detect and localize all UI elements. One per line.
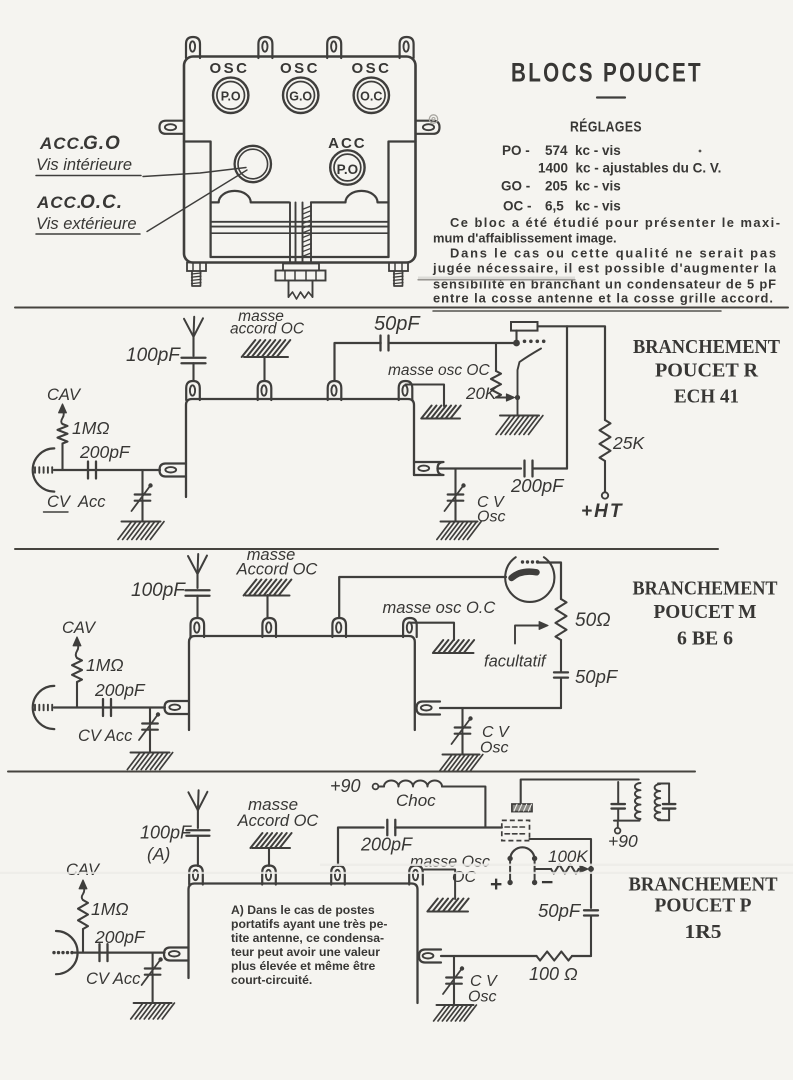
svg-text:C V: C V — [470, 973, 498, 990]
svg-text:mum d'affaiblissement image.: mum d'affaiblissement image. — [433, 231, 617, 246]
facultatif arrow — [515, 626, 543, 644]
wire triode top to 50 ohm — [538, 563, 561, 600]
CAV arrow P — [79, 880, 87, 889]
triode coil crescent — [512, 572, 537, 578]
leader line to ACC O.C trimmer — [147, 170, 247, 232]
trimmer ACC P.O — [330, 150, 364, 184]
ground CV Osc — [441, 521, 478, 523]
antenna — [184, 319, 194, 337]
triode envelope circle — [505, 557, 554, 602]
resistor 1M P — [78, 900, 88, 929]
svg-text:100pF: 100pF — [131, 580, 186, 601]
block P right side lug — [419, 950, 441, 963]
svg-text:50pF: 50pF — [374, 313, 421, 335]
svg-text:ACC.: ACC. — [39, 134, 86, 153]
ground masse accord P — [250, 833, 262, 848]
svg-text:OSC: OSC — [209, 60, 249, 77]
block M lug 1 — [191, 618, 205, 637]
bloc inner bottom line — [211, 256, 389, 258]
block R lug 4 — [399, 381, 413, 400]
ground CV Osc M — [443, 754, 480, 756]
svg-text:ACC.: ACC. — [36, 193, 83, 212]
trimmer OSC P.O — [213, 78, 248, 113]
svg-text:G.O: G.O — [83, 133, 121, 154]
svg-text:entre la cosse antenne et la c: entre la cosse antenne et la cosse grill… — [433, 291, 773, 306]
block P lug 3 — [331, 866, 345, 885]
terminal +HT — [602, 492, 608, 498]
trimmer CV Osc P — [453, 956, 455, 977]
trimmer CV Osc — [454, 469, 456, 495]
svg-text:200pF: 200pF — [510, 475, 565, 496]
svg-text:masse Osc: masse Osc — [410, 854, 490, 871]
wire ground to lug2 — [263, 357, 265, 381]
svg-text:25K: 25K — [612, 433, 645, 453]
trimmer CV Acc P — [152, 953, 154, 968]
scan streaks section 4 — [320, 864, 793, 866]
section divider rule 2 — [15, 548, 718, 550]
bolt right — [389, 263, 408, 272]
capacitor 100pF antenna — [182, 357, 206, 359]
IF transformer secondary top — [658, 783, 669, 785]
svg-text:20K: 20K — [465, 384, 497, 403]
terminal +90 top — [373, 784, 379, 790]
IF transformer primary cap — [617, 782, 619, 803]
svg-text:Dans le cas ou cette qualité n: Dans le cas ou cette qualité ne serait p… — [450, 246, 776, 261]
block R right side lug — [414, 462, 444, 475]
svg-text:Osc: Osc — [477, 509, 505, 526]
svg-text:Vis intérieure: Vis intérieure — [36, 156, 132, 174]
shaft flange — [276, 271, 326, 281]
block P lug 1 — [189, 866, 203, 885]
resistor 1M — [58, 424, 68, 444]
side lug left — [160, 121, 185, 134]
IF transformer primary bottom — [614, 820, 640, 822]
svg-text:6,5 kc - vis: 6,5 kc - vis — [545, 199, 621, 214]
block P lug 4 — [409, 866, 423, 885]
antenna lead wire — [192, 337, 194, 356]
block R lug 3 — [328, 381, 342, 400]
top rail to IF transformer — [521, 780, 639, 805]
CAV arrow — [59, 404, 67, 413]
trimmer ACC G.O / O.C (plain circle) — [235, 146, 271, 182]
svg-text:Accord OC: Accord OC — [237, 812, 319, 830]
block R lug 2 — [258, 381, 272, 400]
resistor 25K — [600, 420, 611, 461]
svg-text:O.C.: O.C. — [80, 192, 123, 213]
mounting tab 2 — [258, 37, 272, 58]
trimmer OSC O.C — [354, 78, 389, 113]
block M lug 2 — [262, 618, 276, 637]
svg-text:court-circuité.: court-circuité. — [231, 973, 312, 987]
svg-text:CAV: CAV — [66, 861, 101, 879]
block M left side lug — [165, 701, 190, 714]
svg-text:P.O: P.O — [221, 90, 241, 104]
filament arc — [510, 847, 534, 858]
wire lug3 riser P — [338, 828, 384, 867]
wiper flexible lead — [518, 349, 542, 416]
svg-text:CV Acc: CV Acc — [86, 970, 141, 988]
mounting tab 4 — [400, 37, 414, 58]
svg-text:POUCET P: POUCET P — [655, 895, 752, 917]
wire lug4 to ground — [406, 385, 445, 407]
choke coil — [378, 786, 384, 788]
shaft collar — [283, 264, 319, 271]
svg-text:CAV: CAV — [47, 386, 82, 404]
IF transformer secondary bottom — [658, 819, 669, 821]
svg-text:masse osc O.C: masse osc O.C — [383, 599, 496, 617]
svg-text:100pF: 100pF — [140, 823, 192, 843]
wire 25K to HT terminal — [604, 461, 606, 492]
svg-text:Vis extérieure: Vis extérieure — [36, 215, 137, 233]
IF transformer secondary coil — [655, 784, 661, 819]
mounting tab 3 — [327, 37, 341, 58]
svg-text:1MΩ: 1MΩ — [86, 655, 124, 675]
coil former double lines — [211, 221, 389, 223]
bottom wire P — [441, 955, 537, 957]
svg-text:portatifs ayant une très pe-: portatifs ayant une très pe- — [231, 917, 387, 931]
ground masse osc P — [427, 899, 437, 912]
capacitor 100pF antenna P — [186, 829, 209, 831]
svg-text:O.C: O.C — [360, 90, 382, 104]
svg-text:RÉGLAGES: RÉGLAGES — [570, 119, 642, 136]
block M lug 4 — [403, 618, 417, 637]
wire lug3 riser — [335, 343, 381, 380]
trimmer CV Osc M — [461, 708, 463, 727]
filament legs — [509, 859, 511, 882]
resistor 1M M — [72, 658, 82, 682]
central shaft — [289, 202, 291, 262]
block M right side lug — [417, 702, 441, 715]
tube arc P (mirrored) — [56, 931, 78, 974]
svg-text:+90: +90 — [330, 776, 361, 796]
svg-text:50Ω: 50Ω — [575, 610, 611, 631]
svg-text:1MΩ: 1MΩ — [72, 418, 110, 438]
svg-text:100pF: 100pF — [126, 345, 181, 366]
svg-text:OC -: OC - — [503, 199, 532, 214]
svg-text:POUCET R: POUCET R — [655, 360, 758, 382]
svg-text:Choc: Choc — [396, 791, 436, 810]
svg-text:100K: 100K — [548, 847, 588, 866]
bloc body outline — [184, 57, 416, 263]
svg-text:+HT: +HT — [581, 501, 623, 522]
antenna M — [188, 556, 198, 574]
wire padder to 50pF branch — [530, 839, 592, 866]
resistor 100K — [535, 868, 551, 870]
block P lug 2 — [262, 866, 276, 885]
capacitor 100pF antenna M — [186, 589, 210, 591]
svg-text:+90: +90 — [608, 831, 638, 851]
capacitor 200pF grid — [87, 462, 89, 479]
IF transformer secondary cap — [668, 784, 670, 804]
ground masse accord M — [244, 580, 257, 596]
block M outline — [189, 636, 415, 730]
coil former top edge with bumps — [211, 191, 289, 202]
svg-text:BRANCHEMENT: BRANCHEMENT — [633, 336, 780, 358]
ground CV Acc — [122, 521, 161, 523]
scan streak under jugee line — [418, 277, 575, 280]
shaft hatching — [303, 206, 312, 209]
capacitor 50pF M — [560, 640, 562, 672]
svg-text:teur peut avoir une valeur: teur peut avoir une valeur — [231, 945, 380, 959]
svg-text:A) Dans le cas de postes: A) Dans le cas de postes — [231, 903, 375, 917]
svg-text:CV Acc: CV Acc — [78, 727, 133, 745]
resistor 50 ohm — [556, 599, 567, 640]
capacitor 50pF — [379, 336, 381, 351]
svg-text:Acc: Acc — [77, 493, 106, 511]
wire lug4 to ground P — [424, 870, 455, 900]
oscillator coil slug rectangle — [511, 322, 538, 331]
capacitor 200pF osc — [523, 461, 525, 477]
wire slug to junction — [515, 331, 517, 343]
block P left side lug — [164, 948, 189, 961]
trimmer OSC G.O — [283, 78, 318, 113]
dotted link M — [521, 560, 524, 563]
bloc inner profile right — [389, 142, 416, 258]
svg-text:Osc: Osc — [480, 740, 508, 757]
input wire M — [54, 706, 165, 708]
wire 50pF to junction — [389, 342, 517, 344]
ground CV Osc P — [437, 1004, 474, 1006]
wire choke to padder rail — [442, 787, 485, 828]
bottom wire M — [440, 707, 561, 709]
padder slug hatched — [512, 804, 532, 812]
svg-text:G.O: G.O — [289, 90, 312, 104]
svg-text:1400 kc - ajustables du C. V.: 1400 kc - ajustables du C. V. — [538, 161, 721, 176]
block R outline — [186, 399, 414, 497]
svg-text:+: + — [490, 873, 502, 896]
input wire — [54, 469, 160, 471]
svg-text:1MΩ: 1MΩ — [91, 899, 129, 919]
ground masse accord — [242, 340, 256, 357]
ground under 20K — [500, 415, 539, 417]
ground masse osc M — [433, 640, 443, 653]
wire right lug to osc CV — [438, 467, 522, 469]
svg-text:Accord OC: Accord OC — [236, 561, 318, 579]
resistor 100 ohm — [537, 952, 573, 961]
title dash — [597, 96, 625, 98]
svg-text:Osc: Osc — [468, 989, 496, 1006]
trimmer CV Acc M — [149, 708, 151, 724]
svg-text:masse osc OC: masse osc OC — [388, 362, 490, 379]
svg-text:BLOCS POUCET: BLOCS POUCET — [511, 58, 703, 88]
svg-text:POUCET M: POUCET M — [654, 601, 757, 623]
svg-text:−: − — [541, 871, 553, 894]
block R lug 1 — [186, 381, 200, 400]
wire lug4 to ground M — [410, 623, 454, 640]
svg-text:200pF: 200pF — [360, 835, 413, 855]
ground CV Acc M — [131, 752, 170, 754]
section divider rule 1 — [15, 307, 788, 309]
svg-text:200pF: 200pF — [79, 442, 131, 462]
capacitor 200pF P — [386, 820, 388, 836]
side lug right — [416, 121, 440, 134]
svg-text:OSC: OSC — [351, 60, 391, 77]
svg-text:ECH 41: ECH 41 — [674, 387, 739, 408]
capacitor 200pF grid M — [102, 699, 104, 716]
capacitor 200pF grid P — [98, 944, 100, 961]
wire feedback branch down — [566, 326, 568, 468]
20K wiper arm — [496, 397, 510, 399]
CAV arrow M — [73, 637, 81, 646]
svg-text:CAV: CAV — [62, 619, 97, 637]
svg-text:tite antenne, ce condensa-: tite antenne, ce condensa- — [231, 931, 384, 945]
svg-text:jugée nécessaire, il est possi: jugée nécessaire, il est possible d'augm… — [432, 261, 777, 276]
svg-text:1R5: 1R5 — [685, 922, 722, 943]
svg-text:PO -: PO - — [502, 143, 530, 158]
tube grid arc M — [33, 686, 55, 729]
wire lug3 riser M to triode — [339, 577, 506, 617]
svg-text:205 kc - vis: 205 kc - vis — [545, 179, 621, 194]
block P outline — [189, 884, 418, 1004]
wire slug to HT rail — [538, 326, 606, 420]
junction dot — [513, 340, 520, 347]
svg-text:(A): (A) — [147, 844, 170, 864]
svg-text:plus élevée et même être: plus élevée et même être — [231, 959, 376, 973]
mounting tab 1 — [186, 37, 200, 58]
potentiometer 20K — [495, 343, 497, 371]
antenna P — [188, 792, 198, 810]
svg-text:CV: CV — [47, 493, 72, 511]
section divider rule 3 — [8, 771, 695, 773]
block R left side lug — [160, 464, 187, 477]
ground masse osc — [421, 406, 431, 419]
bolt left — [187, 263, 206, 272]
IF transformer primary coil — [635, 783, 641, 819]
leader line to ACC G.O trimmer — [143, 168, 246, 177]
junction dot 100K — [588, 866, 594, 872]
bloc inner profile left — [184, 142, 211, 258]
svg-text:facultatif: facultatif — [484, 653, 548, 671]
input wire P — [74, 951, 165, 953]
shaft lower end with break — [288, 281, 290, 298]
svg-text:GO -: GO - — [501, 179, 530, 194]
terminal +90 IF — [617, 821, 619, 828]
svg-text:200pF: 200pF — [94, 927, 146, 947]
svg-text:574 kc - vis: 574 kc - vis — [545, 143, 621, 158]
svg-text:P.O: P.O — [337, 162, 359, 177]
svg-text:6 BE 6: 6 BE 6 — [677, 629, 733, 650]
capacitor 50pF P — [590, 866, 592, 908]
svg-text:Ce bloc a été étudié pour prés: Ce bloc a été étudié pour présenter le m… — [450, 215, 780, 230]
svg-text:100 Ω: 100 Ω — [529, 964, 578, 984]
block M lug 3 — [332, 618, 346, 637]
svg-text:accord OC: accord OC — [230, 321, 305, 338]
svg-text:200pF: 200pF — [94, 680, 146, 700]
svg-text:BRANCHEMENT: BRANCHEMENT — [633, 578, 778, 600]
tube grid arc — [33, 448, 55, 491]
ground CV Acc P — [134, 1002, 172, 1004]
svg-text:50pF: 50pF — [575, 666, 619, 687]
trimmer CV Acc — [141, 470, 143, 494]
svg-text:OSC: OSC — [280, 60, 320, 77]
svg-text:BRANCHEMENT: BRANCHEMENT — [629, 874, 778, 896]
stray print mark — [429, 115, 437, 123]
svg-text:C V: C V — [482, 724, 510, 741]
svg-text:50pF: 50pF — [538, 900, 582, 921]
mechanical dotted link — [523, 340, 527, 344]
padder capacitor dashed box — [502, 820, 530, 840]
